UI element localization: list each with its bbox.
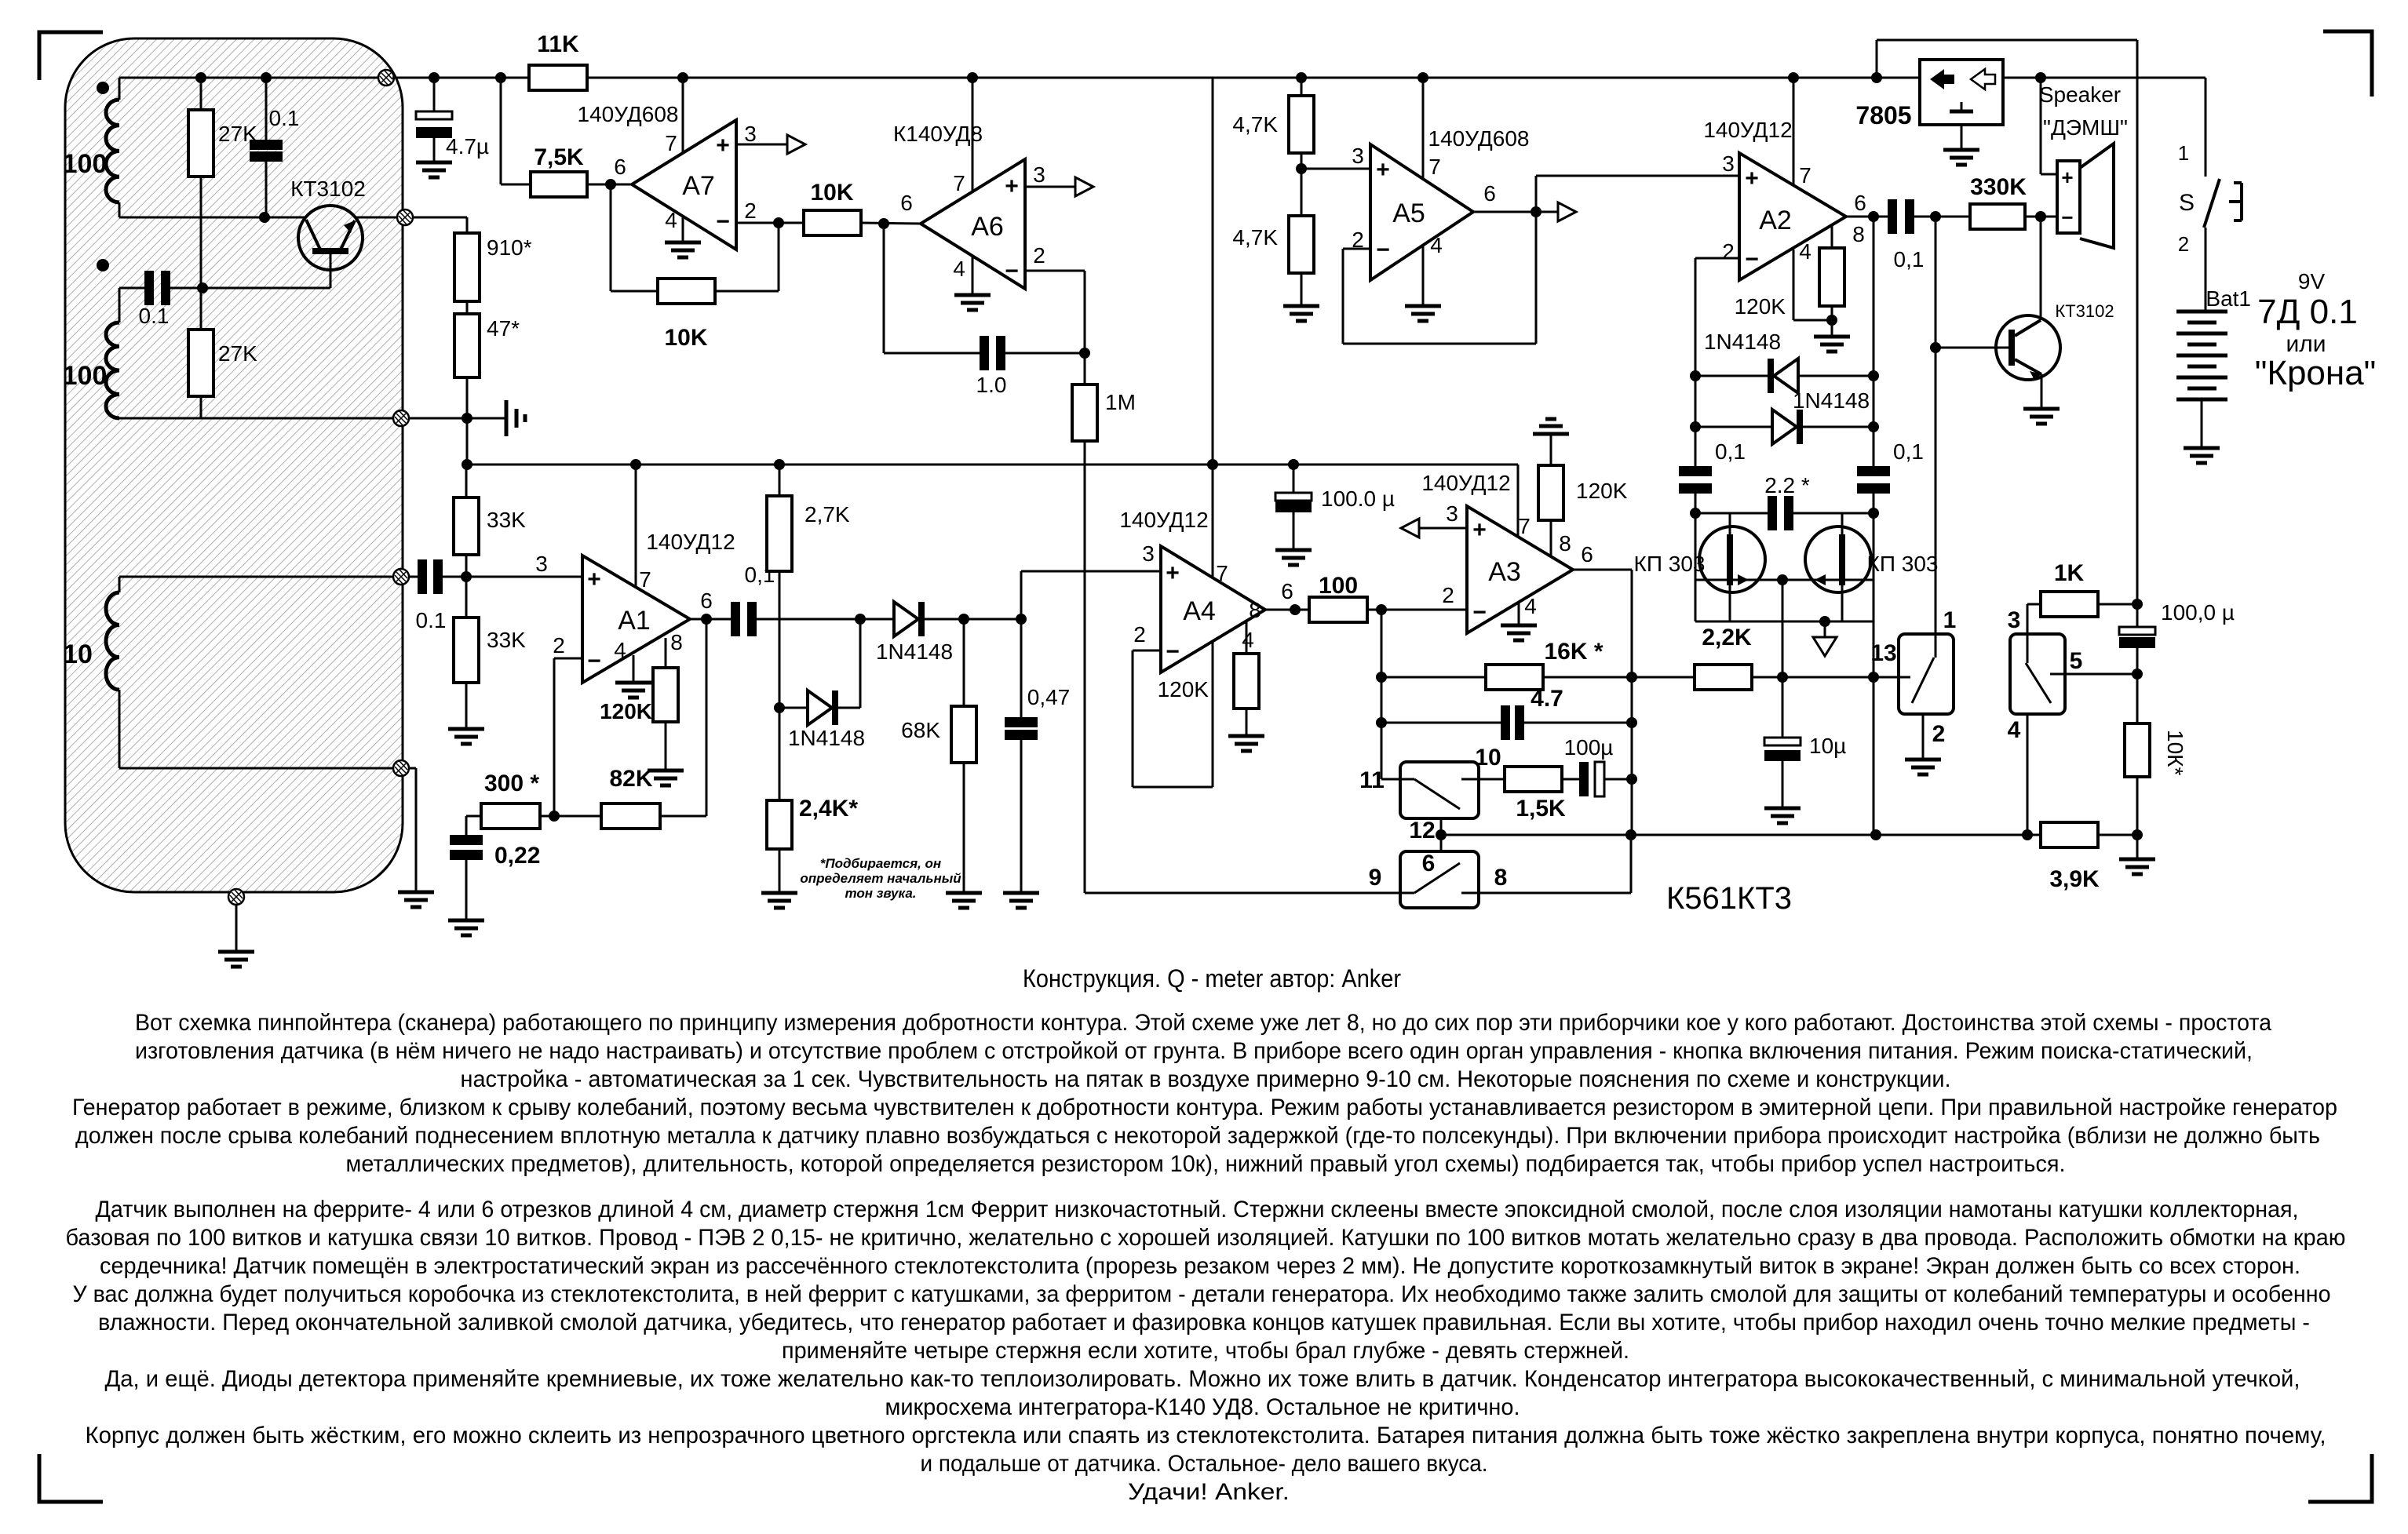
svg-text:1: 1	[1943, 607, 1957, 633]
terminal sensor bottom row	[393, 410, 409, 426]
ground 100.0u	[1275, 550, 1312, 565]
svg-text:3: 3	[1722, 151, 1735, 176]
wire A3 output	[1573, 569, 1632, 571]
wire 4.7u bottom lead	[433, 138, 436, 162]
node out/16K	[1626, 672, 1637, 683]
wire A2 pin4 horizontal	[1793, 319, 1832, 322]
ground 120K A4	[1228, 736, 1264, 751]
svg-text:Корпус должен быть жёстким, ег: Корпус должен быть жёстким, его можно ск…	[86, 1423, 2326, 1448]
svg-text:6: 6	[1422, 851, 1436, 876]
svg-text:4: 4	[2008, 717, 2021, 743]
node rail/7.5K	[495, 72, 506, 83]
svg-text:7: 7	[665, 131, 677, 155]
wire 68K top	[963, 619, 965, 706]
wire Q2 base	[1936, 347, 2008, 349]
wire V+ rail left	[392, 77, 529, 79]
voltage regulator 7805	[1920, 60, 2003, 125]
svg-text:К140УД8: К140УД8	[893, 122, 983, 146]
wire A5 output	[1473, 211, 1558, 213]
wire A7 pin7 supply	[682, 78, 684, 154]
wire 300* left lead	[466, 815, 481, 818]
wire A4 loop bottom	[1133, 786, 1213, 789]
capacitor 100.0u	[1275, 493, 1312, 512]
wire A1 pin4 lead	[633, 655, 635, 683]
node A7 inverting input	[773, 217, 784, 228]
svg-text:0.1: 0.1	[269, 106, 300, 130]
wire D2 row left	[779, 707, 808, 709]
wire A3 out down	[1631, 570, 1633, 835]
node 12/sw2 pin4	[2022, 829, 2033, 840]
wire 0,22 bottom lead	[465, 860, 468, 920]
wire A3 pin7 supply	[1517, 465, 1520, 537]
svg-text:0,22: 0,22	[494, 843, 540, 869]
svg-text:определяет начальный: определяет начальный	[800, 871, 961, 886]
svg-text:5: 5	[2070, 648, 2083, 674]
wire 100.0u top lead	[1293, 465, 1295, 493]
svg-text:9: 9	[1369, 865, 1382, 891]
corner bracket bottom-right	[2308, 1454, 2372, 1502]
svg-text:3: 3	[2008, 607, 2021, 633]
resistor 7,5K	[531, 172, 587, 197]
wire drain stem 2	[1841, 513, 1844, 534]
svg-text:и подальше от датчика. Остальн: и подальше от датчика. Остальное- дело в…	[921, 1451, 1488, 1477]
resistor 27K lower	[188, 330, 213, 396]
resistor 47*	[454, 314, 480, 377]
ground A1 pin4	[615, 683, 651, 698]
wire chain middle	[466, 301, 469, 314]
resistor 120K A1	[653, 668, 678, 722]
transistor Q2 KT3102 (output)	[1996, 315, 2060, 409]
svg-text:6: 6	[1281, 579, 1293, 603]
resistor 4,7K upper	[1289, 96, 1314, 153]
resistor 2,7K	[767, 496, 792, 571]
wire A1 pin8 lead	[665, 638, 667, 668]
node l/d1	[1690, 370, 1701, 381]
svg-text:1.0: 1.0	[976, 373, 1007, 397]
wire A7 feedback down	[610, 184, 612, 291]
svg-text:0.1: 0.1	[416, 608, 447, 632]
wire SW4 pin4 drop	[2027, 714, 2029, 835]
svg-text:Удачи! Anker.: Удачи! Anker.	[1128, 1479, 1290, 1505]
wire SW4 pin3 riser	[2027, 604, 2029, 634]
chassis ground (sideways)	[506, 400, 525, 436]
wire pin13 stub	[1873, 676, 1899, 679]
node 12	[1436, 829, 1447, 840]
svg-text:4: 4	[1524, 594, 1537, 618]
svg-text:7,5K: 7,5K	[534, 144, 584, 170]
svg-text:7: 7	[1428, 155, 1441, 179]
node base row / 27K chain	[197, 282, 208, 293]
wire A6 pin4 lead	[972, 256, 974, 295]
wire 9V top link vert left	[1876, 40, 1878, 78]
wire A4 120K stub	[1246, 621, 1248, 654]
wire 120K A3 bottom lead	[1550, 520, 1552, 557]
node l/d2	[1690, 421, 1701, 432]
terminal sensor V+ tap	[378, 70, 394, 86]
wire sensor top (coil L1 top to V+ tap)	[119, 77, 385, 79]
wire 9V top link	[1877, 39, 2137, 42]
svg-text:120K: 120K	[600, 699, 652, 723]
capacitor 0.1 input	[418, 559, 443, 594]
wire 9V distribution	[2136, 40, 2139, 627]
node rail/top link	[1871, 72, 1882, 83]
svg-text:2,2K: 2,2K	[1702, 625, 1752, 650]
capacitor 2.2*	[1768, 496, 1793, 530]
node r/d2	[1868, 421, 1879, 432]
svg-text:4: 4	[1242, 628, 1254, 652]
wire pin8 riser	[1630, 835, 1633, 893]
ground 10u	[1764, 808, 1801, 823]
wire A2 output	[1846, 216, 1888, 218]
transistor VT1 KP303 (left JFET)	[1699, 527, 1765, 592]
wire A3 pin3 stub	[1419, 527, 1467, 530]
svg-text:10К*: 10К*	[2163, 730, 2187, 775]
wire 4.7 right lead	[1524, 722, 1632, 724]
wire base row mid	[166, 287, 330, 290]
node 12/out riser	[1625, 829, 1636, 840]
node 2,7K/D2	[774, 702, 785, 713]
svg-text:140УД12: 140УД12	[1421, 471, 1510, 495]
op-amp A3 140UD12	[1467, 506, 1573, 633]
wire 0.1 top lead	[265, 78, 268, 140]
resistor 82K	[601, 803, 660, 829]
resistor 4,7K lower	[1289, 216, 1314, 273]
wire coil L3 top lead	[119, 577, 121, 592]
node bus/2,7K	[774, 459, 785, 470]
svg-text:7: 7	[1518, 514, 1531, 538]
wire A1 output	[690, 618, 731, 621]
ground 120K A1	[648, 771, 684, 785]
node rail/A2 pin7	[1788, 72, 1799, 83]
wire mid bus	[467, 464, 1518, 466]
svg-text:6: 6	[614, 155, 626, 179]
wire chain bottom	[466, 377, 469, 418]
wire 27K upper top lead	[200, 78, 202, 110]
ground A6 pin4	[954, 295, 991, 310]
capacitor 4.7u	[416, 111, 452, 138]
node divider mid	[1296, 163, 1307, 174]
wire A1 pin2 down	[553, 658, 556, 816]
resistor 27K upper	[188, 110, 213, 177]
svg-text:2: 2	[553, 633, 565, 658]
wire coil L2 top lead	[119, 288, 121, 322]
ground right	[2119, 859, 2155, 874]
svg-text:140УД12: 140УД12	[1703, 118, 1792, 142]
svg-text:7: 7	[953, 171, 965, 195]
wire A7 pin3 stub	[736, 144, 787, 146]
wire 16K right lead	[1543, 676, 1695, 679]
wire speaker plus stub	[2041, 173, 2057, 176]
svg-text:1M: 1M	[1105, 390, 1136, 414]
svg-text:1,5K: 1,5K	[1516, 796, 1566, 822]
svg-text:4,7K: 4,7K	[1232, 112, 1278, 137]
node chain/bottom row	[462, 413, 472, 424]
node det C	[1016, 614, 1027, 625]
wire chain top lead	[466, 217, 469, 233]
capacitor 0,1 A1 out	[731, 602, 757, 636]
svg-text:−: −	[716, 209, 730, 235]
svg-text:330K: 330K	[1970, 174, 2027, 200]
wire D4 left lead	[1695, 426, 1772, 428]
resistor 11K	[529, 65, 587, 90]
wire gate bias down	[1782, 580, 1784, 738]
ground Q2 emitter	[2023, 409, 2060, 424]
wire 2,4K* top	[779, 708, 781, 800]
svg-text:2,4K*: 2,4K*	[799, 796, 858, 822]
wire D4 right lead	[1803, 426, 1873, 428]
resistor 120K A2	[1819, 248, 1844, 306]
node rail/A6 pin7	[967, 72, 978, 83]
ground shield	[218, 952, 254, 967]
op-amp A4 140UD12	[1161, 546, 1265, 672]
wire shield ground lead	[235, 905, 238, 952]
svg-text:А3: А3	[1488, 557, 1521, 587]
op-amp A2 140UD12	[1739, 153, 1846, 280]
svg-text:КТ3102: КТ3102	[2055, 301, 2114, 321]
svg-text:A7: A7	[682, 171, 715, 201]
wire 2,7K bottom	[779, 571, 781, 708]
svg-text:−: −	[1005, 258, 1019, 284]
svg-text:Генератор работает в режиме, б: Генератор работает в режиме, близком к с…	[72, 1095, 2337, 1120]
flag A5 output	[1558, 202, 1576, 221]
ground 33K lower	[448, 729, 484, 744]
wire 82K right riser	[706, 619, 708, 816]
node 3,9K/gnd	[2132, 829, 2143, 840]
wire 2,2K right lead	[1752, 676, 1873, 679]
wire A2 120K gnd lead	[1831, 320, 1833, 337]
wire 0,47 top	[1020, 619, 1023, 717]
wire A3 inv down	[1381, 610, 1383, 779]
wire A4 pin2 stub	[1133, 650, 1161, 652]
coil L1	[106, 100, 119, 202]
svg-text:16K *: 16K *	[1544, 639, 1603, 665]
diode 1N4148 D4	[1772, 410, 1803, 444]
node l/2.2	[1690, 508, 1701, 519]
corner bracket bottom-left	[39, 1454, 103, 1502]
svg-text:8: 8	[1852, 222, 1865, 246]
resistor 2,2K	[1695, 665, 1752, 690]
wire A5 loop left	[1342, 249, 1344, 344]
wire det row 1	[757, 618, 894, 621]
svg-text:120K: 120K	[1576, 479, 1628, 503]
wire 7.5K drop	[500, 78, 502, 184]
svg-text:3,9K: 3,9K	[2049, 866, 2100, 892]
svg-text:1N4148: 1N4148	[1793, 388, 1870, 413]
wire 33K1 bottom lead	[465, 555, 468, 577]
node base tap	[1930, 211, 1941, 222]
svg-text:3: 3	[535, 552, 548, 576]
wire switch to battery	[2205, 228, 2207, 312]
svg-text:11: 11	[1359, 767, 1385, 793]
svg-text:4.7: 4.7	[1531, 686, 1563, 712]
ground battery	[2184, 448, 2220, 463]
wire bottom row to ground	[409, 417, 506, 420]
svg-text:3: 3	[1446, 501, 1458, 526]
svg-text:A1: A1	[618, 606, 651, 636]
wire collector row right	[355, 217, 467, 219]
wire A5 to A2 pin3	[1536, 175, 1739, 177]
op-amp A1 140UD12	[582, 556, 690, 683]
wire pin11 lead	[1381, 778, 1400, 781]
wire A2 pin4 lead	[1793, 250, 1795, 320]
capacitor 0.1 base coupling	[144, 271, 170, 305]
svg-text:1N4148: 1N4148	[1704, 330, 1781, 354]
svg-text:4: 4	[665, 208, 677, 232]
node base riser/base	[1930, 342, 1941, 353]
wire base riser	[1935, 217, 1937, 634]
wire det down to D2	[859, 619, 862, 708]
svg-text:7: 7	[639, 567, 651, 592]
svg-text:68K: 68K	[901, 718, 940, 742]
node top wire / 27K	[195, 72, 206, 83]
svg-text:У вас должна будет получиться: У вас должна будет получиться коробочка …	[73, 1281, 2331, 1307]
svg-text:10K: 10K	[810, 180, 853, 206]
wire gnd lead right	[2136, 835, 2139, 859]
wire A4 output	[1265, 609, 1309, 611]
coil L3	[106, 592, 119, 690]
resistor 120K A4	[1234, 654, 1259, 709]
wire base row (0.1 cap row)	[119, 287, 144, 290]
svg-text:33K: 33K	[487, 508, 526, 532]
svg-text:0,1: 0,1	[1715, 439, 1746, 464]
svg-text:8: 8	[670, 630, 683, 654]
capacitor 100,0u right	[2119, 627, 2155, 648]
wire coil L1 top lead	[119, 78, 121, 100]
svg-text:влажности. Перед окончательной: влажности. Перед окончательной заливкой …	[98, 1310, 2310, 1335]
node bus/A4 pin7	[1207, 459, 1218, 470]
node A5 out	[1531, 206, 1541, 217]
svg-text:"Крона": "Крона"	[2255, 354, 2377, 392]
ground A5 pin4	[1405, 306, 1441, 321]
wire A5 loop right	[1535, 212, 1538, 344]
node r/2.2	[1868, 508, 1879, 519]
svg-text:120K: 120K	[1735, 294, 1786, 319]
wire Q2 collector	[2040, 217, 2042, 320]
svg-text:2.2 *: 2.2 *	[1764, 473, 1810, 497]
flag A6 output 3	[1075, 177, 1093, 196]
wire cap to A1 pin3	[443, 576, 582, 578]
svg-text:базовая по 100 витков и катушк: базовая по 100 витков и катушка связи 10…	[66, 1225, 2346, 1251]
svg-text:A2: A2	[1759, 206, 1792, 235]
terminal sensor shield	[228, 889, 244, 905]
svg-text:+: +	[1376, 157, 1390, 183]
capacitor 10u	[1764, 738, 1801, 761]
svg-text:"ДЭМШ": "ДЭМШ"	[2043, 115, 2128, 140]
svg-text:микросхема интегратора-К140 УД: микросхема интегратора-К140 УД8. Остальн…	[885, 1394, 1520, 1420]
resistor 2,4K*	[767, 800, 792, 849]
wire A6 pin7 supply	[972, 78, 974, 191]
winding start dot L2	[97, 259, 109, 271]
signal ground triangle	[1813, 637, 1837, 656]
svg-text:сердечника! Датчик помещён в э: сердечника! Датчик помещён в электростат…	[100, 1253, 2300, 1279]
analog switch SW1 (K561KT3 pins 11/10)	[1400, 762, 1479, 818]
analog switch SW4 (K561KT3 pins 3/5/4)	[2010, 634, 2065, 714]
wire left col lower	[1695, 494, 1697, 621]
wire A6 pin3 stub	[1025, 186, 1075, 188]
wire A5 out riser	[1535, 176, 1538, 212]
wire A7 pin4 lead	[682, 216, 684, 242]
wire 10K series right lead	[861, 223, 921, 224]
svg-text:9V: 9V	[2298, 269, 2326, 293]
svg-text:140УД12: 140УД12	[1119, 508, 1208, 532]
svg-text:+: +	[2061, 166, 2073, 189]
node bus left corner	[462, 459, 472, 470]
wire 27K lower leads	[200, 288, 202, 330]
node gates	[1777, 574, 1788, 585]
diode 1N4148 D2	[808, 690, 838, 725]
wire A7 pin2 stub	[736, 222, 779, 224]
gate arrow VT2	[1815, 574, 1826, 585]
svg-text:3: 3	[1033, 162, 1045, 187]
wire 1K right lead	[2098, 603, 2137, 606]
svg-text:0,1: 0,1	[1893, 439, 1924, 464]
svg-text:6: 6	[700, 588, 713, 613]
svg-text:+: +	[1472, 517, 1487, 543]
svg-text:A5: A5	[1392, 199, 1425, 228]
svg-text:2: 2	[1442, 583, 1454, 607]
svg-text:A4: A4	[1183, 596, 1216, 626]
resistor 120K A3	[1538, 465, 1563, 520]
wire A2 pin2 stub	[1695, 257, 1739, 260]
wire det to A4 pin3	[1021, 570, 1161, 573]
gate arrow VT1	[1738, 574, 1749, 585]
svg-text:тон звука.: тон звука.	[845, 886, 916, 901]
wire A6 pin2 down	[1084, 271, 1086, 353]
node A6 input	[878, 218, 889, 229]
node 1.0/1M	[1079, 348, 1090, 359]
wire A4 pin7 supply	[1212, 465, 1214, 578]
svg-text:1: 1	[2178, 141, 2189, 165]
wire source bus	[1695, 621, 1873, 623]
svg-text:10K: 10K	[664, 325, 707, 351]
analog switch SW2 (K561KT3 pins 9/6/8)	[1400, 851, 1479, 908]
wire L3 bottom down	[415, 768, 418, 892]
resistor 1K	[2041, 592, 2098, 617]
node det A	[855, 614, 866, 625]
resistor 16K*	[1486, 665, 1543, 690]
svg-text:Bat1: Bat1	[2206, 286, 2251, 311]
svg-text:12: 12	[1409, 818, 1435, 844]
wire 2.2 left lead	[1695, 512, 1768, 515]
wire A1 pin7 supply	[635, 465, 637, 588]
resistor 1,5K	[1505, 767, 1562, 792]
svg-text:6: 6	[1483, 181, 1496, 206]
wire 7805 gnd lead	[1961, 125, 1963, 150]
resistor 100	[1309, 597, 1367, 622]
svg-text:+: +	[1745, 166, 1759, 191]
terminal sensor collector	[397, 210, 413, 225]
capacitor 1.0 integrator	[980, 336, 1005, 370]
svg-text:7: 7	[1799, 163, 1811, 188]
wire source stem 1	[1729, 585, 1731, 621]
wire A7 feedback left lead	[611, 290, 658, 293]
ground A7 pin4	[665, 242, 701, 257]
wire right col lower	[1873, 494, 1875, 835]
wire A2 120K stub	[1831, 226, 1833, 248]
flag A3 input 3	[1401, 519, 1419, 537]
wire 82K right lead	[660, 815, 706, 818]
node A3 inverting	[1376, 604, 1387, 615]
capacitor 0.1 oscillator	[250, 140, 283, 162]
ground A3 pin4	[1501, 625, 1537, 640]
ground 2,4K*	[761, 893, 797, 908]
capacitor 0,1 A2 out	[1888, 199, 1914, 234]
svg-text:1N4148: 1N4148	[876, 639, 953, 664]
ground 0,47	[1003, 893, 1039, 908]
wire 33K1 top lead	[465, 465, 468, 497]
node A4 out	[1290, 604, 1301, 615]
node 1K/9V	[2132, 599, 2143, 610]
